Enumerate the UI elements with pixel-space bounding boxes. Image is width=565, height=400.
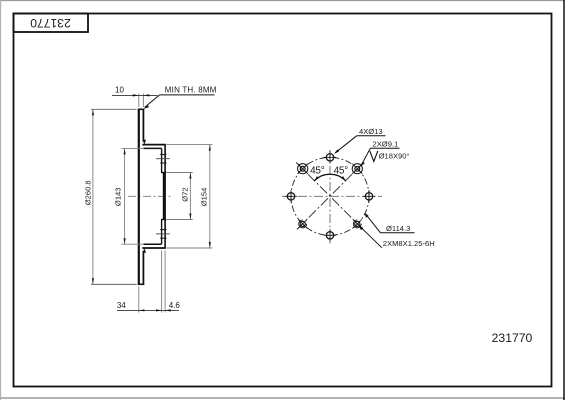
bore bottom edge [161, 219, 166, 221]
bolt hole S (Ø13) [324, 229, 337, 242]
bolt hole axis upper [156, 158, 170, 160]
svg-text:231770: 231770 [30, 16, 71, 30]
svg-text:Ø72: Ø72 [180, 187, 189, 201]
bolt hole axis lower [156, 233, 170, 235]
45 degree arc with arrows [314, 174, 345, 180]
hat top outer surface [142, 144, 166, 146]
bore top edge [161, 172, 166, 174]
hat wall outer (mounting face) [164, 145, 166, 248]
title box top-left [14, 14, 89, 33]
bolt circle Ø114.3 (dash-dot) [291, 157, 369, 235]
svg-text:2XØ9.1: 2XØ9.1 [373, 139, 399, 148]
svg-text:Ø260.8: Ø260.8 [83, 180, 92, 205]
svg-text:Ø143: Ø143 [114, 188, 123, 207]
disc bottom edge [138, 283, 145, 285]
dimension Ø143 [122, 148, 144, 244]
svg-text:4.6: 4.6 [169, 301, 181, 310]
wedge at inboard face top [143, 140, 146, 145]
bolt hole section lower: edges [160, 229, 166, 231]
hole SE (M8 tapped) [353, 219, 362, 228]
hole SW (M8 tapped) [298, 219, 307, 228]
hat top inner surface [143, 147, 161, 149]
centre bore edge line [163, 173, 165, 220]
dimension Ø260.8 [91, 109, 137, 284]
hat bottom inner surface [143, 243, 161, 245]
hole NW (Ø9.1 csk Ø18) [298, 164, 308, 174]
hat wall inner lower [161, 220, 163, 245]
svg-text:45°: 45° [334, 165, 349, 176]
svg-text:Ø114.3: Ø114.3 [386, 224, 410, 233]
hat wall inner upper [161, 148, 163, 172]
diagonal centerline NW-SE [296, 162, 364, 230]
svg-text:MIN TH. 8MM: MIN TH. 8MM [165, 86, 217, 95]
svg-text:Ø18X90°: Ø18X90° [379, 152, 410, 161]
svg-text:10: 10 [115, 86, 124, 95]
hole NE (Ø9.1 csk Ø18) [352, 164, 362, 174]
bolt hole W (Ø13) [285, 190, 298, 203]
diagonal centerline NE-SW [296, 162, 364, 230]
horizontal centerline [282, 195, 382, 197]
dimension Ø154 [167, 145, 213, 248]
wedge at inboard face bottom [143, 248, 146, 253]
section centerline (horizontal dash-dot) [128, 195, 173, 197]
svg-text:2XM8X1.25-6H: 2XM8X1.25-6H [383, 239, 435, 248]
dimension 10 (disc thickness) [112, 94, 158, 108]
svg-text:45°: 45° [310, 165, 325, 176]
countersink symbol and Ø18X90 [370, 151, 378, 162]
bolt hole N (Ø13) [324, 151, 337, 164]
bolt hole E (Ø13) [363, 190, 376, 203]
svg-text:34: 34 [117, 301, 126, 310]
disc inboard face lower [142, 251, 144, 284]
hat bottom outer surface [142, 247, 166, 249]
dimension 34 and 4.6 (bottom) [117, 251, 179, 313]
disc top edge [138, 108, 145, 110]
svg-text:231770: 231770 [492, 331, 533, 345]
bolt hole section upper: edges [160, 153, 166, 155]
disc inboard face upper [142, 109, 144, 141]
svg-text:4XØ13: 4XØ13 [359, 127, 383, 136]
svg-text:Ø154: Ø154 [200, 188, 209, 207]
vertical centerline [329, 150, 331, 244]
dimension Ø72 [167, 173, 193, 220]
disc outboard face [138, 109, 140, 284]
